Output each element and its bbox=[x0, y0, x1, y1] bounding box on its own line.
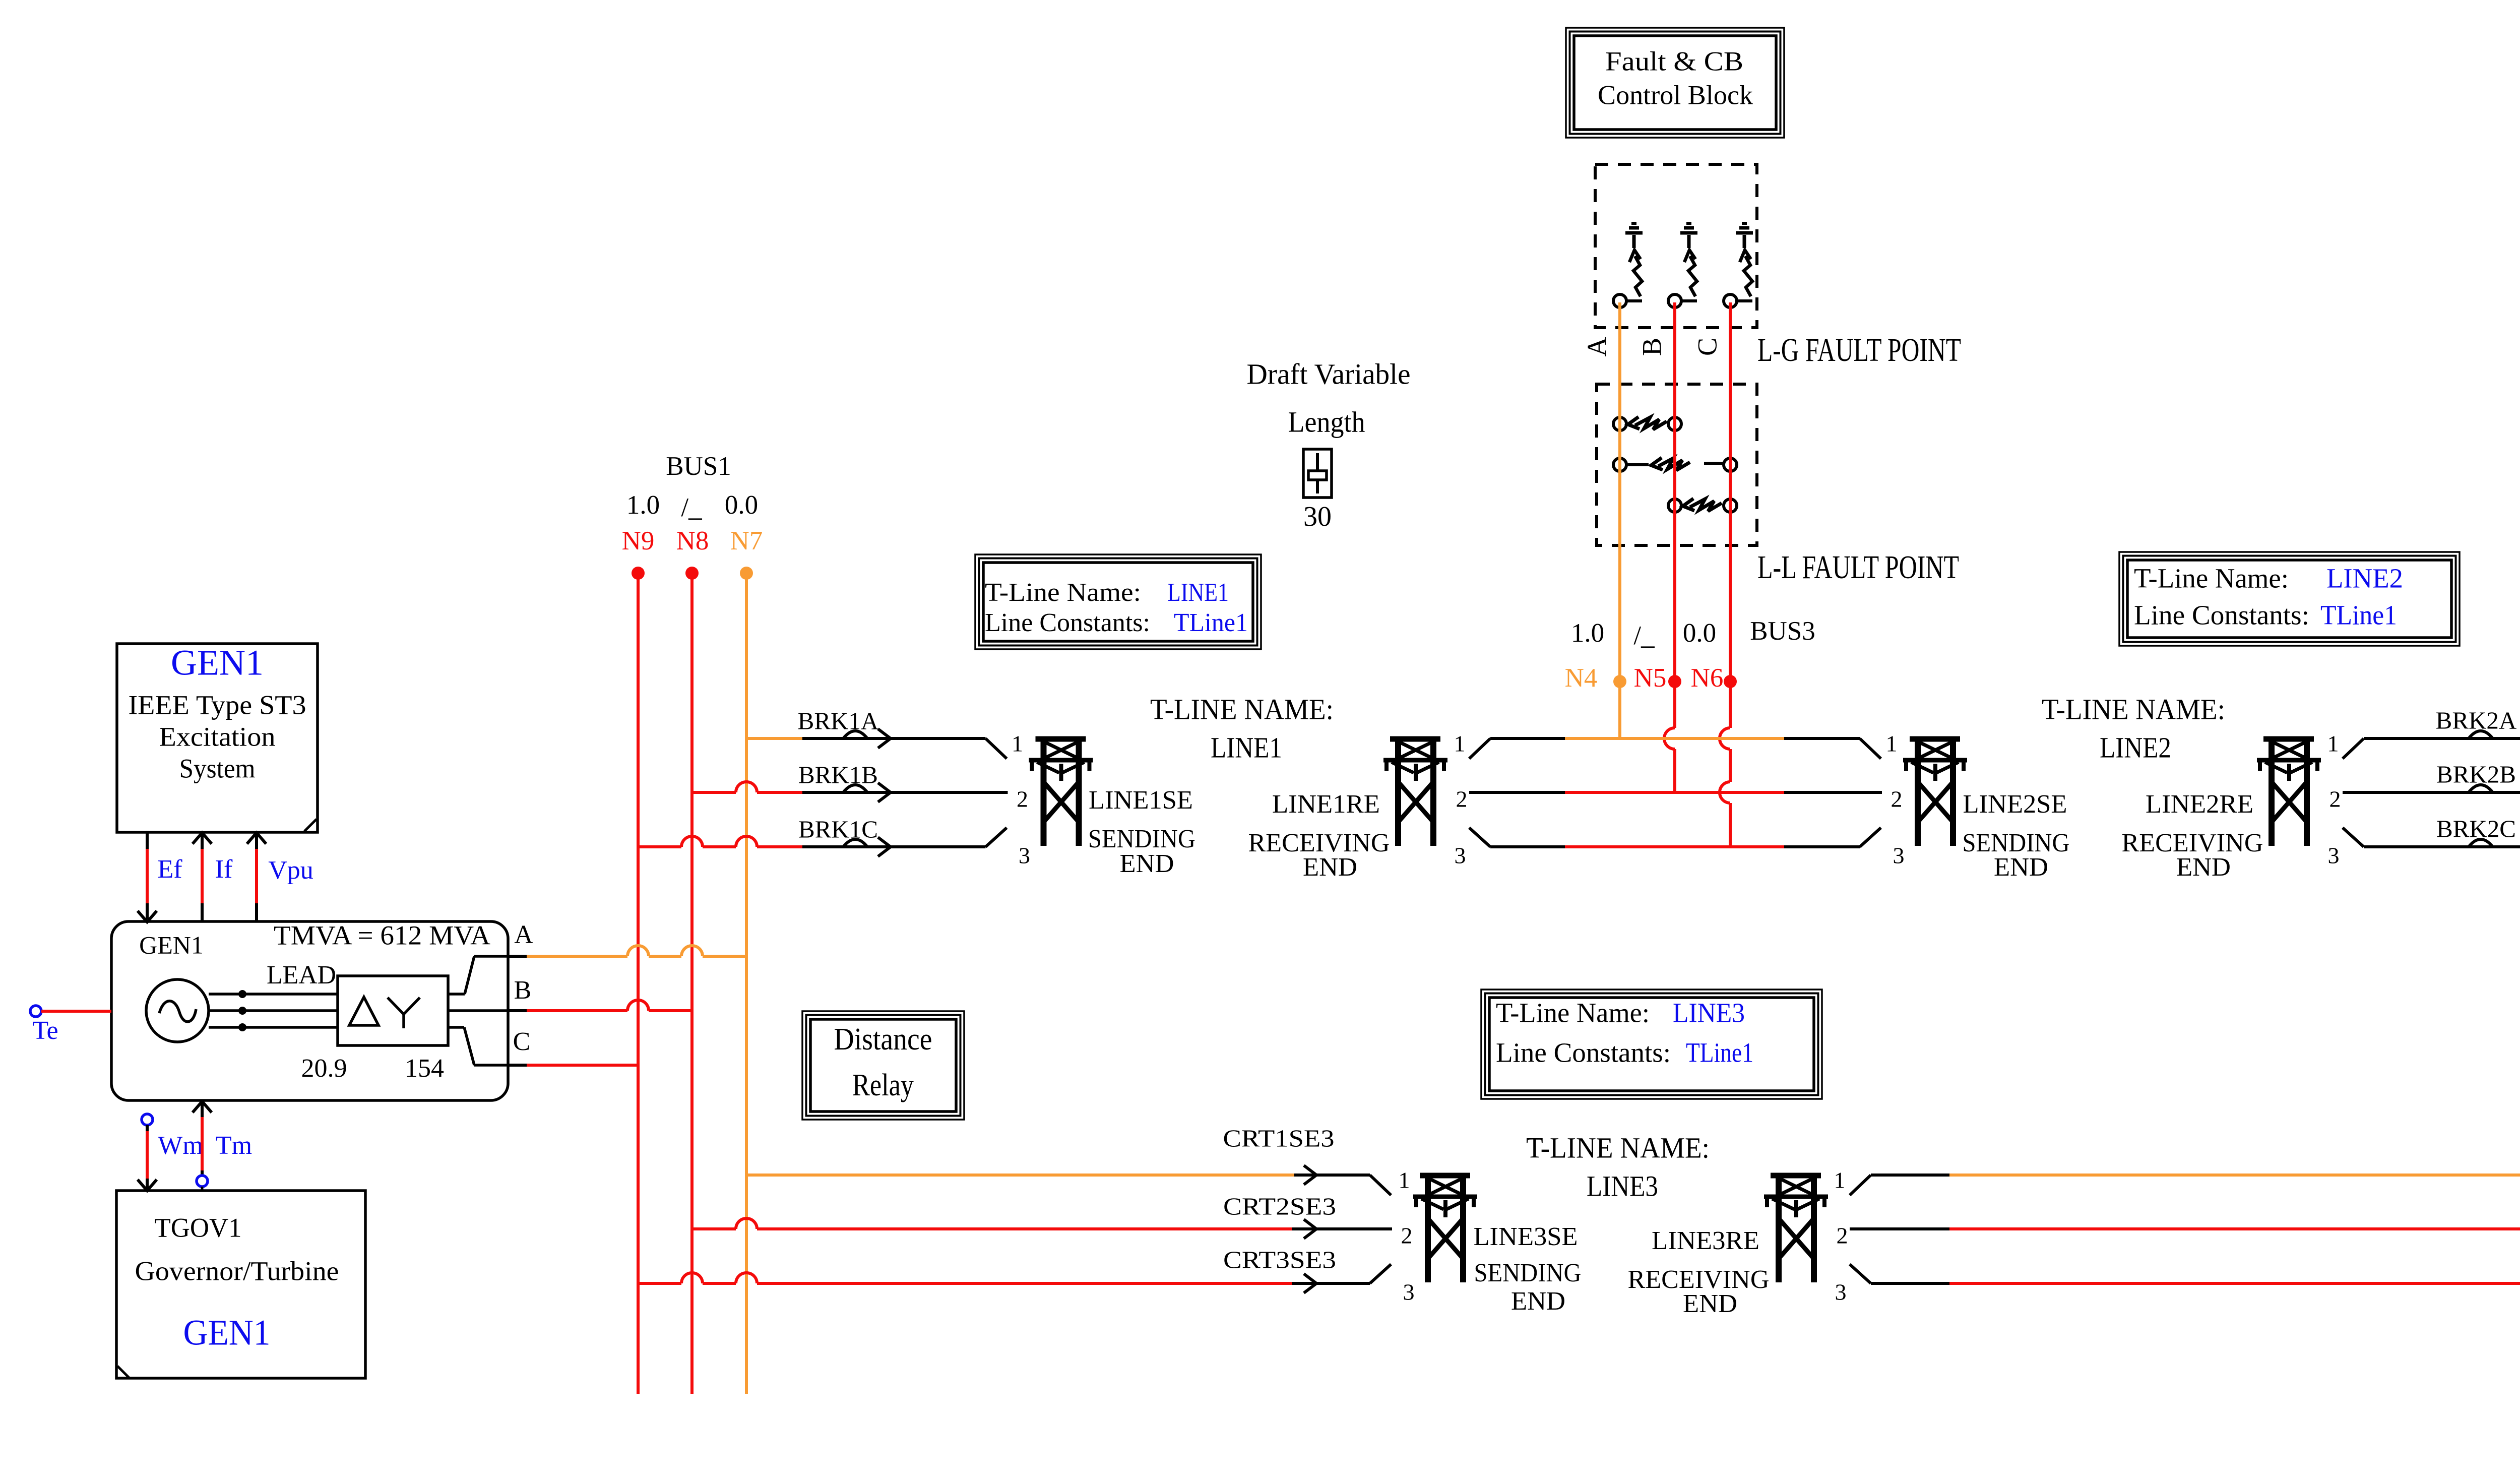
svg-text:C: C bbox=[513, 1027, 531, 1056]
port label 2 LINE1SE bbox=[1017, 786, 1028, 812]
svg-text:END: END bbox=[1303, 853, 1357, 882]
port label 3 LINE1RE bbox=[1455, 843, 1466, 869]
wire LINE3RE port2 to BUS2 N2 bbox=[1850, 1218, 2520, 1229]
svg-text:System: System bbox=[179, 753, 256, 783]
port label 1 LINE2SE bbox=[1886, 731, 1898, 757]
fault FLT_C L-G fault breaker phase C bbox=[1724, 223, 1753, 307]
label END (LINE2SE) bbox=[1994, 853, 2048, 882]
breaker BRK2C wire LINE2RE port3 to BUS2 N3 bbox=[2343, 828, 2520, 847]
svg-text:T-Line Name:: T-Line Name: bbox=[1496, 998, 1650, 1028]
label BRK2A bbox=[2436, 706, 2517, 734]
label BUS1 voltage 1.0 bbox=[626, 490, 660, 520]
node N4 bbox=[1565, 663, 1626, 693]
svg-text:LINE3SE: LINE3SE bbox=[1474, 1222, 1578, 1251]
svg-text:SENDING: SENDING bbox=[1474, 1259, 1582, 1287]
port label 1 LINE3SE bbox=[1399, 1167, 1410, 1193]
svg-text:LINE2SE: LINE2SE bbox=[1963, 790, 2067, 819]
svg-text:BRK1A: BRK1A bbox=[798, 707, 879, 734]
svg-text:2: 2 bbox=[1837, 1223, 1848, 1249]
svg-text:154: 154 bbox=[405, 1054, 444, 1083]
label generator terminal A bbox=[514, 920, 533, 949]
svg-text:END: END bbox=[1511, 1287, 1565, 1316]
port label 1 LINE2RE bbox=[2327, 731, 2339, 757]
port label 3 LINE1SE bbox=[1019, 843, 1030, 869]
label T-LINE NAME: (LINE3) bbox=[1526, 1131, 1710, 1164]
port label 1 LINE1SE bbox=[1012, 731, 1023, 757]
svg-text:T-LINE NAME:: T-LINE NAME: bbox=[1150, 693, 1334, 725]
svg-text:0.0: 0.0 bbox=[725, 490, 758, 520]
svg-text:Distance: Distance bbox=[834, 1022, 932, 1057]
label Ef bbox=[157, 855, 182, 884]
svg-text:B: B bbox=[1636, 338, 1667, 356]
label Length bbox=[1288, 405, 1365, 438]
label CRT3SE3 bbox=[1223, 1246, 1336, 1273]
label RECEIVING (LINE3) bbox=[1628, 1265, 1770, 1294]
svg-text:Line Constants:: Line Constants: bbox=[985, 608, 1150, 637]
svg-text:1: 1 bbox=[1886, 731, 1898, 757]
node N7 bbox=[730, 526, 763, 580]
svg-text:TLine1: TLine1 bbox=[2320, 600, 2397, 631]
svg-text:3: 3 bbox=[1835, 1279, 1847, 1305]
wire Ef exciter output bbox=[138, 831, 157, 922]
label BRK2B bbox=[2436, 760, 2516, 788]
svg-text:TGOV1: TGOV1 bbox=[155, 1212, 242, 1243]
svg-text:N9: N9 bbox=[622, 526, 655, 555]
svg-text:GEN1: GEN1 bbox=[139, 931, 204, 959]
svg-text:N5: N5 bbox=[1634, 663, 1667, 693]
svg-text:3: 3 bbox=[2328, 843, 2340, 869]
svg-text:LINE2RE: LINE2RE bbox=[2146, 790, 2253, 819]
wire span phase C LINE1RE to LINE2SE bbox=[1469, 828, 1881, 847]
node N9 bbox=[622, 526, 655, 580]
label BUS3 bbox=[1750, 616, 1815, 646]
svg-text:A: A bbox=[514, 920, 533, 949]
wire fault tap phase B (N5 vertical) bbox=[1664, 302, 1675, 792]
wire gen phase A to BUS1 N7 bbox=[508, 946, 746, 956]
label LINE2RE bbox=[2146, 790, 2253, 819]
label BUS1 bbox=[666, 452, 731, 481]
label END (LINE2RE) bbox=[2176, 853, 2231, 882]
node N6 bbox=[1691, 663, 1737, 693]
wire CRT3SE3 BUS1 N9 to LINE3SE port3 bbox=[638, 1264, 1391, 1293]
wire span phase A LINE1RE to LINE2SE bbox=[1469, 738, 1881, 759]
fault FLT_B L-G fault breaker phase B bbox=[1668, 223, 1697, 307]
block TGOV1 governor turbine bbox=[116, 1191, 365, 1378]
wire BUS1 phase A vertical (N7) bbox=[745, 573, 748, 1394]
svg-text:0.0: 0.0 bbox=[1683, 619, 1716, 648]
wire gen phase C to BUS1 N9 bbox=[508, 1064, 638, 1067]
wire CRT2SE3 BUS1 N8 to LINE3SE port2 bbox=[692, 1218, 1392, 1239]
label generator terminal C bbox=[513, 1027, 531, 1056]
svg-text:GEN1: GEN1 bbox=[183, 1313, 271, 1353]
label slider value 30 bbox=[1303, 501, 1332, 532]
port label 2 LINE3RE bbox=[1837, 1223, 1848, 1249]
svg-text:Excitation: Excitation bbox=[159, 721, 276, 752]
svg-text:TMVA = 612 MVA: TMVA = 612 MVA bbox=[274, 920, 490, 950]
svg-text:Governor/Turbine: Governor/Turbine bbox=[135, 1256, 339, 1286]
label RECEIVING (LINE1) bbox=[1248, 829, 1390, 857]
label T-LINE NAME: (LINE2) bbox=[2042, 693, 2225, 725]
label LINE1RE bbox=[1272, 790, 1380, 819]
svg-text:N7: N7 bbox=[730, 526, 763, 555]
port label 2 LINE2SE bbox=[1891, 786, 1903, 812]
node N8 bbox=[676, 526, 709, 580]
label Tm bbox=[216, 1131, 252, 1160]
svg-text:/_: /_ bbox=[1633, 621, 1655, 650]
svg-text:3: 3 bbox=[1893, 843, 1905, 869]
label CRT1SE3 bbox=[1223, 1124, 1335, 1152]
svg-text:LINE1SE: LINE1SE bbox=[1089, 786, 1193, 815]
wire Wm speed output bbox=[138, 1114, 157, 1191]
label BUS1 angle 0.0 bbox=[725, 490, 758, 520]
svg-text:N6: N6 bbox=[1691, 663, 1724, 693]
svg-text:A: A bbox=[1582, 337, 1612, 357]
fault FLT_A L-G fault breaker phase A bbox=[1613, 223, 1643, 307]
svg-text:LINE3RE: LINE3RE bbox=[1652, 1226, 1759, 1255]
svg-text:2: 2 bbox=[1017, 786, 1028, 812]
svg-text:1: 1 bbox=[1399, 1167, 1410, 1193]
svg-text:END: END bbox=[1120, 849, 1174, 878]
wire Tm torque input bbox=[193, 1101, 212, 1191]
breaker BRK1B wire BUS1 to LINE1SE port2 bbox=[692, 782, 1008, 802]
annotation box T-Line LINE3 info bbox=[1481, 990, 1822, 1099]
svg-text:LEAD: LEAD bbox=[267, 961, 336, 990]
wire BUS1 phase C vertical (N9) bbox=[637, 573, 640, 1394]
svg-text:Length: Length bbox=[1288, 405, 1365, 438]
port label 3 LINE2RE bbox=[2328, 843, 2340, 869]
svg-text:3: 3 bbox=[1455, 843, 1466, 869]
port label 3 LINE2SE bbox=[1893, 843, 1905, 869]
svg-text:Te: Te bbox=[32, 1016, 58, 1045]
label RECEIVING (LINE2) bbox=[2122, 829, 2263, 857]
svg-text:CRT3SE3: CRT3SE3 bbox=[1223, 1246, 1336, 1273]
svg-text:N8: N8 bbox=[676, 526, 709, 555]
svg-text:END: END bbox=[1994, 853, 2048, 882]
svg-text:CRT2SE3: CRT2SE3 bbox=[1223, 1192, 1336, 1220]
wire fault tap phase C (N6 vertical) bbox=[1720, 302, 1730, 847]
port label 2 LINE2RE bbox=[2329, 786, 2341, 812]
port label 1 LINE1RE bbox=[1454, 731, 1466, 757]
svg-text:END: END bbox=[2176, 853, 2231, 882]
label LINE3SE bbox=[1474, 1222, 1578, 1251]
svg-text:2: 2 bbox=[1891, 786, 1903, 812]
svg-text:LINE3: LINE3 bbox=[1673, 998, 1745, 1028]
svg-text:Wm: Wm bbox=[158, 1131, 203, 1160]
svg-text:IEEE Type ST3: IEEE Type ST3 bbox=[129, 690, 306, 720]
svg-text:END: END bbox=[1683, 1289, 1737, 1318]
svg-text:3: 3 bbox=[1403, 1279, 1415, 1305]
wire fault tap phase A (N4 vertical) bbox=[1618, 302, 1621, 738]
label BRK2C bbox=[2436, 815, 2516, 842]
port label 2 LINE3SE bbox=[1401, 1223, 1413, 1249]
fault FAC L-L fault A-C bbox=[1613, 458, 1737, 471]
svg-text:LINE2: LINE2 bbox=[2100, 731, 2171, 764]
svg-text:CRT1SE3: CRT1SE3 bbox=[1223, 1124, 1335, 1152]
svg-text:20.9: 20.9 bbox=[301, 1054, 347, 1083]
port label 2 LINE1RE bbox=[1456, 786, 1468, 812]
svg-text:T-Line Name:: T-Line Name: bbox=[985, 578, 1141, 607]
label BRK1B bbox=[798, 761, 878, 788]
fault FBC L-L fault B-C bbox=[1668, 499, 1737, 512]
svg-text:If: If bbox=[215, 855, 233, 884]
wire LINE3RE port3 to BUS2 N3 bbox=[1850, 1264, 2520, 1283]
svg-text:C: C bbox=[1692, 338, 1722, 356]
label LINE2SE bbox=[1963, 790, 2067, 819]
svg-text:Relay: Relay bbox=[852, 1068, 914, 1102]
label Vpu bbox=[268, 856, 313, 885]
label CRT2SE3 bbox=[1223, 1192, 1336, 1220]
svg-text:/_: /_ bbox=[681, 493, 702, 522]
svg-text:2: 2 bbox=[2329, 786, 2341, 812]
svg-text:BRK2C: BRK2C bbox=[2436, 815, 2516, 842]
label END (LINE1RE) bbox=[1303, 853, 1357, 882]
svg-text:Ef: Ef bbox=[157, 855, 182, 884]
svg-text:T-LINE NAME:: T-LINE NAME: bbox=[2042, 693, 2225, 725]
label If bbox=[215, 855, 233, 884]
L-L fault dashed enclosure bbox=[1597, 384, 1757, 545]
svg-text:LINE1: LINE1 bbox=[1211, 731, 1282, 764]
block GEN1 IEEE ST3 excitation system bbox=[117, 643, 318, 832]
breaker BRK1A wire BUS1 to LINE1SE port1 bbox=[746, 729, 1007, 759]
svg-text:BRK2B: BRK2B bbox=[2436, 760, 2516, 788]
annotation box: Fault & CB Control Block bbox=[1566, 28, 1784, 138]
svg-text:T-LINE NAME:: T-LINE NAME: bbox=[1526, 1131, 1710, 1164]
wire span phase B LINE1RE to LINE2SE bbox=[1469, 791, 1882, 794]
svg-text:1.0: 1.0 bbox=[626, 490, 660, 520]
svg-text:Vpu: Vpu bbox=[268, 856, 313, 885]
svg-text:Line Constants:: Line Constants: bbox=[2134, 600, 2309, 631]
breaker BRK2B wire LINE2RE port2 to BUS2 N2 bbox=[2343, 782, 2520, 792]
svg-text:T-Line Name:: T-Line Name: bbox=[2134, 563, 2289, 594]
L-G fault dashed enclosure bbox=[1595, 164, 1757, 328]
svg-text:1: 1 bbox=[1454, 731, 1466, 757]
svg-text:BUS3: BUS3 bbox=[1750, 616, 1815, 646]
svg-text:1.0: 1.0 bbox=[1571, 619, 1604, 648]
slider Length control bbox=[1303, 449, 1332, 498]
tower LINE3RE transmission line interface bbox=[1764, 1174, 1828, 1282]
label END (LINE3RE) bbox=[1683, 1289, 1737, 1318]
wire gen phase B to BUS1 N8 bbox=[508, 1000, 692, 1011]
label LINE3RE bbox=[1652, 1226, 1759, 1255]
label generator terminal B bbox=[514, 976, 532, 1005]
wire CRT1SE3 BUS1 N7 to LINE3SE port1 bbox=[746, 1165, 1391, 1195]
breaker BRK2A wire LINE2RE port1 to BUS2 N1 bbox=[2343, 728, 2520, 759]
svg-text:Tm: Tm bbox=[216, 1131, 252, 1160]
svg-text:BRK2A: BRK2A bbox=[2436, 706, 2517, 734]
svg-text:2: 2 bbox=[1456, 786, 1468, 812]
label SENDING (LINE2) bbox=[1963, 829, 2070, 857]
svg-text:Control Block: Control Block bbox=[1598, 80, 1753, 110]
label LINE3 span name bbox=[1587, 1169, 1658, 1202]
annotation box T-Line LINE2 info bbox=[2119, 552, 2460, 646]
label BUS3 angle symbol bbox=[1633, 621, 1655, 650]
svg-text:BRK1B: BRK1B bbox=[798, 761, 878, 788]
port label 3 LINE3RE bbox=[1835, 1279, 1847, 1305]
annotation box T-Line LINE1 info bbox=[975, 554, 1261, 649]
label T-LINE NAME: (LINE1) bbox=[1150, 693, 1334, 725]
wire If feedback bbox=[193, 833, 212, 921]
svg-text:BRK1C: BRK1C bbox=[798, 815, 878, 843]
label BUS3 voltage 1.0 bbox=[1571, 619, 1604, 648]
node N5 bbox=[1634, 663, 1681, 693]
svg-text:30: 30 bbox=[1303, 501, 1332, 532]
label END (LINE1SE) bbox=[1120, 849, 1174, 878]
label BRK1A bbox=[798, 707, 879, 734]
label END (LINE3SE) bbox=[1511, 1287, 1565, 1316]
label LINE2 span name bbox=[2100, 731, 2171, 764]
tower LINE1RE transmission line interface bbox=[1383, 737, 1447, 846]
svg-text:LINE1: LINE1 bbox=[1167, 578, 1229, 607]
svg-text:2: 2 bbox=[1401, 1223, 1413, 1249]
wire LINE3RE port1 to BUS2 N1 bbox=[1850, 1164, 2520, 1195]
phase label A (rotated) bbox=[1582, 337, 1612, 357]
svg-text:BUS1: BUS1 bbox=[666, 452, 731, 481]
label LINE1 span name bbox=[1211, 731, 1282, 764]
svg-text:L-G FAULT POINT: L-G FAULT POINT bbox=[1757, 332, 1961, 368]
svg-text:1: 1 bbox=[1012, 731, 1023, 757]
phase label B (rotated) bbox=[1636, 338, 1667, 356]
port label 3 LINE3SE bbox=[1403, 1279, 1415, 1305]
svg-text:L-L FAULT POINT: L-L FAULT POINT bbox=[1757, 549, 1959, 586]
svg-text:Draft Variable: Draft Variable bbox=[1247, 357, 1411, 390]
svg-text:LINE1RE: LINE1RE bbox=[1272, 790, 1380, 819]
svg-text:1: 1 bbox=[1834, 1167, 1846, 1193]
svg-text:GEN1: GEN1 bbox=[171, 643, 264, 683]
label Wm bbox=[158, 1131, 203, 1160]
label BUS1 angle symbol bbox=[681, 493, 702, 522]
label BRK1C bbox=[798, 815, 878, 843]
fault FAB L-L fault A-B bbox=[1613, 417, 1681, 430]
svg-text:Fault & CB: Fault & CB bbox=[1605, 46, 1743, 76]
tower LINE2SE transmission line interface bbox=[1903, 737, 1967, 846]
label LINE1SE bbox=[1089, 786, 1193, 815]
label L-G FAULT POINT bbox=[1757, 332, 1961, 368]
tower LINE3SE transmission line interface bbox=[1413, 1174, 1477, 1282]
label SENDING (LINE1) bbox=[1088, 825, 1195, 853]
generator GEN1 synchronous machine block bbox=[111, 920, 508, 1100]
label BUS3 angle 0.0 bbox=[1683, 619, 1716, 648]
svg-text:Line Constants:: Line Constants: bbox=[1496, 1037, 1671, 1068]
phase label C (rotated) bbox=[1692, 338, 1722, 356]
svg-text:N4: N4 bbox=[1565, 663, 1598, 693]
svg-text:LINE3: LINE3 bbox=[1587, 1169, 1658, 1202]
breaker BRK1C wire BUS1 to LINE1SE port3 bbox=[638, 828, 1007, 856]
label L-L FAULT POINT bbox=[1757, 549, 1959, 586]
port label 1 LINE3RE bbox=[1834, 1167, 1846, 1193]
svg-text:3: 3 bbox=[1019, 843, 1030, 869]
label Draft Variable bbox=[1247, 357, 1411, 390]
svg-text:B: B bbox=[514, 976, 532, 1005]
wire BUS1 phase B vertical (N8) bbox=[690, 573, 694, 1394]
svg-text:LINE2: LINE2 bbox=[2326, 563, 2403, 594]
tower LINE1SE transmission line interface bbox=[1029, 737, 1093, 846]
svg-text:TLine1: TLine1 bbox=[1174, 608, 1248, 637]
wire Vpu feedback bbox=[247, 833, 266, 921]
svg-text:TLine1: TLine1 bbox=[1686, 1037, 1753, 1068]
label SENDING (LINE3) bbox=[1474, 1259, 1582, 1287]
annotation box Distance Relay bbox=[802, 1011, 964, 1120]
terminal Te bbox=[30, 1006, 111, 1045]
tower LINE2RE transmission line interface bbox=[2257, 737, 2321, 846]
svg-text:1: 1 bbox=[2327, 731, 2339, 757]
